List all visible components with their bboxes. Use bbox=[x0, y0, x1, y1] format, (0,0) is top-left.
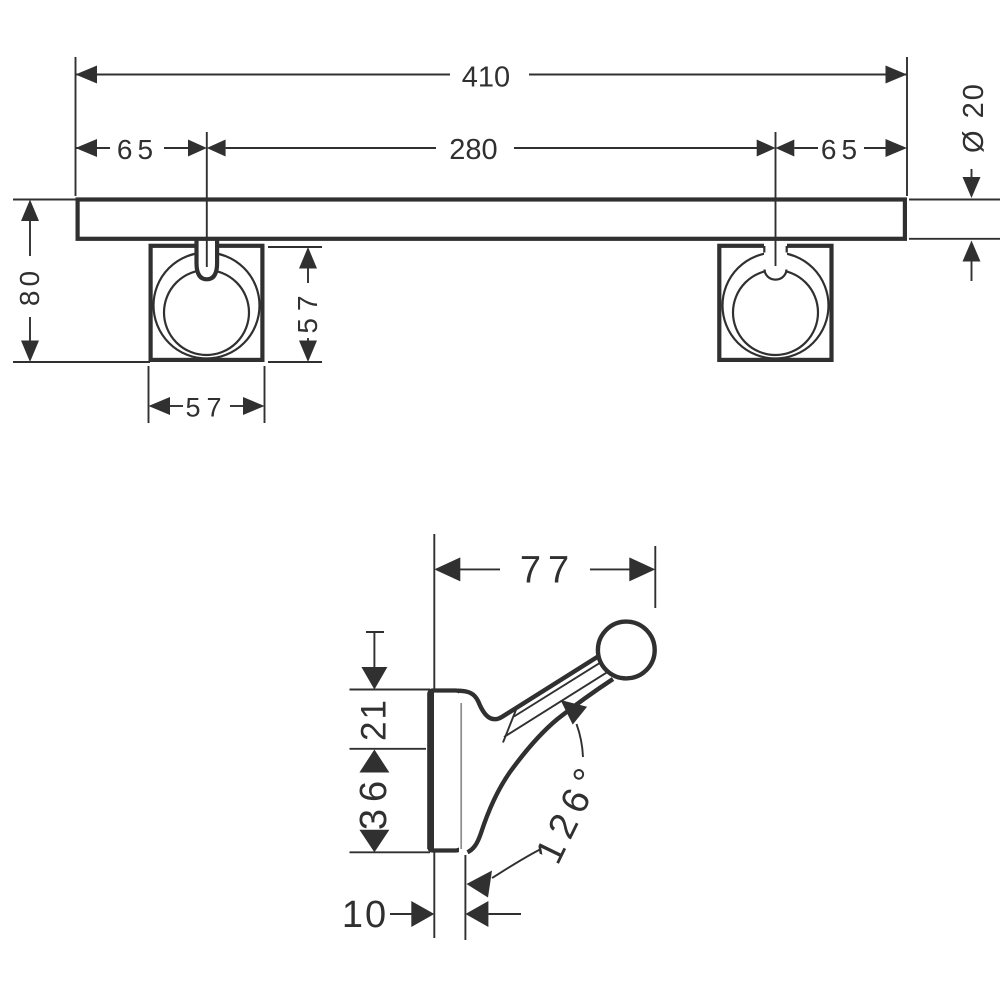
dimension 10: right-pointing arrow at wall bbox=[411, 901, 434, 927]
dimension 65 right: right arrow bbox=[886, 139, 908, 157]
bowtie arrows at right holder center bbox=[757, 140, 776, 157]
dimension 80: line upper bbox=[29, 220, 31, 256]
dimension 410: line bbox=[76, 74, 451, 76]
svg-text:10: 10 bbox=[342, 894, 388, 936]
svg-text:280: 280 bbox=[449, 134, 497, 166]
bar (towel rail) bbox=[78, 200, 905, 239]
diameter 20: lower arrow bbox=[963, 241, 981, 262]
dimension 80: top extension line bbox=[13, 199, 76, 201]
dimension 77: line left bbox=[457, 568, 500, 570]
dimension 57 horizontal: left extension line bbox=[148, 366, 150, 423]
arm body fill bbox=[459, 654, 618, 852]
dimension 77: right arrow bbox=[629, 557, 655, 581]
left holder outer ring bbox=[154, 253, 260, 359]
dimension 36: bottom extension line bbox=[350, 851, 431, 853]
svg-text:77: 77 bbox=[520, 550, 576, 592]
right holder inner ring bbox=[733, 270, 818, 355]
wall line bbox=[433, 534, 435, 938]
wall plate face band bbox=[427, 693, 434, 850]
svg-text:36: 36 bbox=[353, 774, 395, 830]
svg-text:21: 21 bbox=[355, 698, 394, 741]
arm bottom edge bbox=[468, 679, 614, 852]
right holder slot cup arc bbox=[765, 270, 787, 280]
svg-text:65: 65 bbox=[821, 134, 862, 165]
dimension 57 vertical: upper arrow bbox=[299, 247, 317, 269]
diameter 20: upper leader line bbox=[971, 169, 973, 179]
dimension 57 horizontal: right extension line bbox=[264, 366, 266, 423]
dimension 36: upper extension line bbox=[350, 748, 427, 750]
dimension 57 horizontal: line right bbox=[230, 405, 244, 407]
svg-text:410: 410 bbox=[462, 61, 510, 93]
right holder slot left hook bbox=[763, 246, 765, 253]
dimension 65 right: line bbox=[794, 147, 818, 149]
arm axis lower line bbox=[504, 671, 609, 737]
dimension 21: upper extension line bbox=[350, 689, 431, 691]
right holder slot right hook bbox=[786, 246, 788, 253]
svg-text:57: 57 bbox=[292, 288, 323, 333]
dimension 21: upper line bbox=[373, 632, 375, 668]
dimension 57 vertical: top extension line bbox=[268, 246, 322, 248]
dimension 57 vertical: upper line bbox=[307, 268, 309, 283]
dimension 77: line right bbox=[590, 568, 633, 570]
dimension 80: upper arrow bbox=[21, 200, 39, 222]
svg-text:57: 57 bbox=[185, 393, 227, 423]
dimension 10: line right bbox=[488, 913, 521, 915]
dimension 410: left arrow bbox=[76, 66, 98, 84]
diameter 20: bar top extension line bbox=[909, 199, 1000, 201]
dimension 57 vertical: lower line bbox=[307, 338, 309, 342]
svg-text:Ø 20: Ø 20 bbox=[958, 82, 990, 153]
dimension 77: left arrow bbox=[434, 557, 460, 581]
dimension 126: upper leader bbox=[577, 724, 584, 757]
bowtie arrows at left holder center bbox=[188, 140, 207, 157]
dimension 80: lower arrow bbox=[21, 341, 39, 363]
dimension 65 left: left arrow bbox=[76, 139, 98, 157]
arm cross tick bbox=[503, 706, 518, 743]
dimension 36: down arrow bbox=[359, 830, 389, 853]
arm axis upper line bbox=[514, 660, 604, 716]
diameter 20: bar bottom extension line bbox=[909, 238, 1000, 240]
dimension 10: line left bbox=[390, 913, 412, 915]
left holder inner ring bbox=[164, 270, 249, 355]
dimension 36: up arrow bbox=[359, 750, 389, 773]
extension line: bar right end bbox=[906, 57, 908, 196]
ball knob bbox=[598, 622, 655, 679]
extension line: bar left end bbox=[75, 57, 77, 196]
dimension 57 horizontal: left arrow bbox=[149, 397, 171, 415]
dimension 21: down arrow bbox=[361, 667, 387, 690]
dimension 57 vertical: bottom extension line bbox=[268, 361, 322, 363]
dimension 77: right extension line bbox=[654, 546, 656, 608]
dimension 57 horizontal: right arrow bbox=[243, 397, 265, 415]
extension line through right holder center bbox=[775, 132, 777, 266]
diameter 20: lower leader line bbox=[971, 260, 973, 281]
dimension 80: line lower bbox=[29, 317, 31, 341]
svg-text:80: 80 bbox=[14, 267, 45, 306]
arm top edge bbox=[458, 654, 602, 719]
left holder square bbox=[151, 246, 263, 360]
dimension 126: lower leader bbox=[492, 849, 541, 878]
dimension 280: line bbox=[226, 147, 436, 149]
dimension 126: lower arrowhead bbox=[467, 871, 493, 898]
dimension 57 horizontal: line left bbox=[170, 405, 184, 407]
svg-text:65: 65 bbox=[117, 134, 158, 165]
wall plate bbox=[430, 691, 463, 851]
dimension 57 vertical: lower arrow bbox=[299, 341, 317, 363]
dimension 126: upper arrowhead bbox=[561, 700, 588, 725]
left holder pin bbox=[197, 239, 218, 279]
dimension 65 left: line bbox=[76, 147, 111, 149]
dimension 410: right arrow bbox=[886, 66, 908, 84]
arm hidden base edge bbox=[460, 703, 462, 849]
plate face extension line bbox=[464, 855, 466, 940]
right holder square bbox=[719, 246, 831, 360]
dimension 80: bottom extension line bbox=[13, 361, 150, 363]
dimension 21: top tick bbox=[366, 631, 384, 633]
right holder slot (white gap) bbox=[764, 242, 787, 273]
right holder outer ring bbox=[723, 253, 829, 359]
extension line through left holder center bbox=[206, 132, 208, 267]
dimension 10: left-pointing arrow at plate face bbox=[465, 901, 488, 927]
diameter 20: upper arrow bbox=[963, 177, 981, 198]
